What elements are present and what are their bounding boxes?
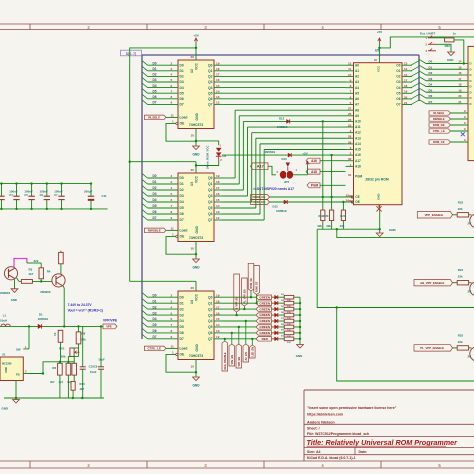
- svg-text:7: 7: [171, 89, 173, 93]
- svg-text:D7: D7: [153, 335, 157, 339]
- svg-text:OE: OE: [180, 235, 186, 239]
- svg-text:D13: D13: [279, 116, 285, 120]
- svg-text:22k: 22k: [34, 259, 39, 263]
- svg-text:O7: O7: [396, 103, 400, 107]
- svg-text:Q0: Q0: [208, 176, 213, 180]
- svg-text:CTRL_LE: CTRL_LE: [433, 129, 445, 133]
- svg-text:VCC: VCC: [195, 62, 199, 70]
- svg-text:D7: D7: [153, 216, 157, 220]
- svg-text:A9: A9: [355, 114, 359, 118]
- svg-text:Q2: Q2: [208, 75, 213, 79]
- svg-text:GND: GND: [195, 344, 199, 352]
- svg-text:9: 9: [171, 335, 173, 339]
- svg-text:Q1: Q1: [208, 182, 213, 186]
- svg-text:GND: GND: [11, 298, 17, 302]
- svg-text:18: 18: [216, 67, 220, 71]
- svg-text:17: 17: [458, 77, 462, 81]
- svg-text:13: 13: [216, 210, 220, 214]
- svg-text:A15: A15: [355, 148, 361, 152]
- svg-text:D7: D7: [180, 337, 184, 341]
- svg-text:VCC: VCC: [195, 293, 199, 301]
- svg-text:D6: D6: [153, 95, 157, 99]
- svg-text:VPE_EN: VPE_EN: [231, 355, 234, 365]
- svg-text:1N5819: 1N5819: [277, 125, 288, 129]
- svg-text:VPP/VPE: VPP/VPE: [103, 319, 118, 323]
- svg-text:A3: A3: [355, 80, 359, 84]
- svg-text:RLSBLE: RLSBLE: [433, 111, 444, 115]
- svg-text:A4: A4: [355, 86, 359, 90]
- svg-text:Q0: Q0: [208, 63, 213, 67]
- svg-text:RV1: RV1: [59, 347, 65, 351]
- svg-text:PGM: PGM: [355, 175, 363, 179]
- svg-text:A6: A6: [355, 97, 359, 101]
- svg-text:Vout = vref * (R1/R2+1): Vout = vref * (R1/R2+1): [68, 308, 103, 312]
- svg-text:26: 26: [348, 112, 352, 116]
- svg-text:22k: 22k: [81, 337, 86, 341]
- svg-text:6: 6: [171, 317, 173, 321]
- svg-text:GREEN: GREEN: [259, 301, 270, 305]
- svg-text:Q1: Q1: [208, 69, 213, 73]
- svg-text:D3: D3: [153, 78, 157, 82]
- svg-text:ROM_OE: ROM_OE: [252, 200, 265, 204]
- svg-text:12: 12: [216, 216, 220, 220]
- svg-text:D4: D4: [153, 84, 157, 88]
- svg-text:GREEN: GREEN: [259, 331, 270, 335]
- svg-text:ROM_CE: ROM_CE: [256, 281, 259, 292]
- svg-text:16: 16: [216, 311, 220, 315]
- svg-text:D7: D7: [180, 218, 184, 222]
- svg-text:GND: GND: [192, 153, 200, 157]
- svg-text:Q4: Q4: [208, 86, 213, 90]
- svg-text:10uF: 10uF: [98, 358, 105, 362]
- svg-text:D2: D2: [429, 71, 433, 75]
- svg-text:15: 15: [216, 198, 220, 202]
- svg-text:4k7: 4k7: [50, 380, 55, 384]
- svg-text:KiCad E.D.A. kicad (6.0.7-1)-: KiCad E.D.A. kicad (6.0.7-1)-1: [307, 456, 356, 460]
- svg-text:14: 14: [216, 89, 220, 93]
- svg-text:D1: D1: [153, 67, 157, 71]
- svg-text:16: 16: [216, 78, 220, 82]
- svg-text:4: 4: [171, 73, 173, 77]
- svg-text:10: 10: [348, 73, 352, 77]
- svg-text:10uF: 10uF: [90, 370, 97, 374]
- svg-text:D7: D7: [153, 101, 157, 105]
- svg-text:D3: D3: [180, 313, 184, 317]
- svg-text:Q6: Q6: [208, 331, 213, 335]
- svg-text:14: 14: [404, 67, 408, 71]
- svg-text:D: D: [470, 62, 472, 66]
- svg-text:22k: 22k: [458, 207, 463, 211]
- svg-text:D7: D7: [429, 100, 433, 104]
- svg-text:CE: CE: [355, 195, 359, 199]
- svg-text:2N3904: 2N3904: [0, 291, 11, 295]
- svg-text:14: 14: [216, 204, 220, 208]
- svg-text:8: 8: [171, 95, 173, 99]
- svg-text:D6: D6: [180, 212, 184, 216]
- svg-text:D2: D2: [223, 154, 227, 158]
- svg-text:C6: C6: [40, 193, 44, 197]
- svg-text:74HC573: 74HC573: [189, 354, 203, 358]
- svg-text:19: 19: [216, 174, 220, 178]
- svg-text:O0: O0: [396, 63, 400, 67]
- svg-text:2: 2: [171, 293, 173, 297]
- svg-text:20: 20: [191, 168, 195, 172]
- svg-text:O6: O6: [396, 97, 400, 101]
- svg-text:13: 13: [404, 62, 408, 66]
- svg-text:C5: C5: [24, 193, 28, 197]
- svg-text:5: 5: [171, 311, 173, 315]
- svg-text:Q4: Q4: [208, 200, 213, 204]
- svg-text:15: 15: [404, 73, 408, 77]
- svg-text:17: 17: [216, 305, 220, 309]
- svg-text:4k7: 4k7: [59, 380, 64, 384]
- svg-text:9: 9: [171, 216, 173, 220]
- svg-text:10: 10: [191, 247, 195, 251]
- svg-text:R6: R6: [52, 366, 56, 370]
- svg-text:14: 14: [216, 323, 220, 327]
- svg-text:RWSBLE: RWSBLE: [148, 229, 161, 233]
- svg-text:D5: D5: [153, 204, 157, 208]
- svg-text:D: D: [470, 90, 472, 94]
- svg-text:100nF: 100nF: [9, 190, 18, 194]
- svg-text:Q7: Q7: [208, 103, 213, 107]
- svg-text:D2: D2: [180, 307, 184, 311]
- svg-text:D: D: [470, 79, 472, 83]
- svg-text:10uH: 10uH: [0, 318, 7, 322]
- svg-text:15: 15: [216, 84, 220, 88]
- svg-text:10: 10: [191, 134, 195, 138]
- svg-text:Q0: Q0: [208, 295, 213, 299]
- svg-text:R19R20: R19R20: [319, 214, 329, 218]
- svg-text:9: 9: [171, 101, 173, 105]
- svg-text:GND: GND: [4, 367, 8, 373]
- svg-text:2: 2: [171, 174, 173, 178]
- svg-text:D2: D2: [153, 305, 157, 309]
- svg-text:20: 20: [458, 94, 462, 98]
- svg-text:A0: A0: [355, 63, 359, 67]
- svg-text:D1: D1: [39, 312, 43, 316]
- svg-text:C11: C11: [102, 194, 108, 198]
- svg-text:3: 3: [171, 67, 173, 71]
- svg-text:D4: D4: [180, 200, 184, 204]
- svg-text:24pin_ROM_VCC: 24pin_ROM_VCC: [206, 144, 210, 169]
- svg-text:VCC: VCC: [195, 175, 199, 183]
- svg-text:A16: A16: [355, 153, 361, 157]
- svg-text:D1: D1: [180, 69, 184, 73]
- svg-text:RED: RED: [262, 337, 269, 341]
- svg-text:GND: GND: [192, 266, 200, 270]
- svg-text:>=SST39SF020 needs A17: >=SST39SF020 needs A17: [253, 187, 294, 191]
- svg-text:GREEN: GREEN: [259, 295, 270, 299]
- svg-text:100nF: 100nF: [40, 190, 49, 194]
- svg-text:Anders Nielsen: Anders Nielsen: [307, 420, 335, 424]
- svg-text:32k: 32k: [340, 224, 345, 228]
- svg-text:18: 18: [404, 84, 408, 88]
- svg-text:Load: Load: [180, 347, 188, 351]
- svg-text:4k7: 4k7: [29, 272, 34, 276]
- svg-text:O4: O4: [396, 86, 400, 90]
- svg-text:O2: O2: [396, 75, 400, 79]
- svg-text:29: 29: [348, 140, 352, 144]
- svg-text:1N5819: 1N5819: [276, 209, 287, 213]
- svg-text:U2: U2: [190, 69, 194, 73]
- svg-text:+5V: +5V: [377, 30, 382, 34]
- svg-text:Size: A4: Size: A4: [307, 450, 321, 454]
- svg-text:14: 14: [458, 60, 462, 64]
- svg-text:7.44V to 24.37V: 7.44V to 24.37V: [68, 303, 93, 307]
- svg-text:Q5: Q5: [208, 91, 213, 95]
- svg-text:3: 3: [171, 180, 173, 184]
- svg-text:A8: A8: [355, 108, 359, 112]
- svg-text:D3: D3: [153, 192, 157, 196]
- svg-text:GND: GND: [2, 407, 8, 411]
- svg-text:22k: 22k: [458, 275, 463, 279]
- svg-text:C10C9: C10C9: [89, 364, 98, 368]
- svg-text:+5V: +5V: [193, 34, 198, 38]
- svg-text:D2: D2: [153, 186, 157, 190]
- svg-text:GND: GND: [377, 194, 381, 200]
- svg-text:ROM_OE: ROM_OE: [433, 123, 445, 127]
- svg-text:1N5819: 1N5819: [265, 150, 276, 154]
- svg-text:ROM_CE: ROM_CE: [253, 195, 266, 199]
- svg-text:D6: D6: [429, 94, 433, 98]
- svg-text:12: 12: [216, 335, 220, 339]
- svg-text:Q4: Q4: [208, 319, 213, 323]
- svg-text:D5: D5: [180, 91, 184, 95]
- svg-text:Q3: Q3: [208, 80, 213, 84]
- svg-text:Q2: Q2: [208, 307, 213, 311]
- svg-text:19: 19: [216, 293, 220, 297]
- svg-text:D7: D7: [180, 103, 184, 107]
- svg-text:7: 7: [171, 204, 173, 208]
- svg-text:6: 6: [171, 198, 173, 202]
- svg-text:VCC: VCC: [377, 65, 381, 72]
- svg-text:VPE: VPE: [106, 325, 112, 329]
- svg-text:MC2288: MC2288: [2, 363, 12, 366]
- svg-text:Load: Load: [180, 116, 188, 120]
- svg-text:5: 5: [171, 78, 173, 82]
- svg-text:A16: A16: [311, 159, 317, 163]
- svg-text:Q6: Q6: [208, 97, 213, 101]
- svg-text:A7: A7: [355, 103, 359, 107]
- svg-text:18: 18: [216, 299, 220, 303]
- svg-text:2N3906: 2N3906: [40, 290, 51, 294]
- svg-text:D1: D1: [180, 301, 184, 305]
- svg-text:A14: A14: [355, 142, 361, 146]
- svg-text:U5: U5: [375, 49, 379, 53]
- svg-text:4: 4: [171, 186, 173, 190]
- svg-text:D5: D5: [153, 323, 157, 327]
- svg-text:28: 28: [348, 135, 352, 139]
- svg-text:200uF: 200uF: [84, 190, 93, 194]
- svg-text:D: D: [470, 67, 472, 71]
- svg-text:R4: R4: [47, 269, 51, 273]
- svg-text:100nF: 100nF: [54, 190, 63, 194]
- svg-text:CTRL_LE: CTRL_LE: [148, 347, 162, 351]
- svg-text:16: 16: [216, 192, 220, 196]
- svg-text:GREEN: GREEN: [259, 313, 270, 317]
- svg-text:D12: D12: [273, 205, 279, 209]
- svg-text:Q7: Q7: [208, 218, 213, 222]
- svg-text:13: 13: [216, 95, 220, 99]
- svg-text:D3: D3: [180, 80, 184, 84]
- svg-text:D2: D2: [180, 188, 184, 192]
- svg-text:27: 27: [348, 107, 352, 111]
- svg-text:OE: OE: [355, 200, 360, 204]
- svg-text:D5: D5: [429, 88, 433, 92]
- svg-text:GND: GND: [389, 228, 397, 232]
- svg-text:D2: D2: [153, 73, 157, 77]
- svg-text:Q2: Q2: [208, 188, 213, 192]
- svg-text:U4: U4: [190, 300, 194, 304]
- svg-text:D4: D4: [429, 83, 433, 87]
- svg-text:+5V: +5V: [302, 152, 307, 156]
- svg-text:17: 17: [404, 78, 408, 82]
- svg-text:18: 18: [458, 83, 462, 87]
- svg-text:22k: 22k: [458, 340, 463, 344]
- svg-text:D0: D0: [180, 295, 184, 299]
- svg-text:19: 19: [458, 88, 462, 92]
- svg-text:6: 6: [171, 84, 173, 88]
- svg-text:O5: O5: [396, 91, 400, 95]
- svg-text:D5: D5: [180, 325, 184, 329]
- svg-text:D: D: [470, 96, 472, 100]
- svg-text:100nF: 100nF: [24, 190, 33, 194]
- svg-text:D[0..7]: D[0..7]: [126, 52, 136, 56]
- svg-text:28/32 pin ROM: 28/32 pin ROM: [365, 178, 389, 182]
- svg-text:Q3: Q3: [208, 194, 213, 198]
- svg-text:A13: A13: [355, 136, 361, 140]
- svg-text:5: 5: [171, 192, 173, 196]
- svg-text:GREEN: GREEN: [259, 319, 270, 323]
- svg-text:D1: D1: [180, 182, 184, 186]
- svg-text:D0: D0: [153, 293, 157, 297]
- svg-text:D1: D1: [153, 180, 157, 184]
- svg-text:D0: D0: [429, 60, 433, 64]
- svg-text:A18: A18: [311, 170, 317, 174]
- svg-text:D4: D4: [180, 319, 184, 323]
- svg-text:21: 21: [404, 101, 408, 105]
- svg-text:D0: D0: [153, 174, 157, 178]
- svg-text:7: 7: [171, 323, 173, 327]
- svg-text:11: 11: [348, 67, 352, 71]
- svg-text:2N: 2N: [468, 221, 472, 225]
- svg-text:Ext_UART: Ext_UART: [420, 32, 435, 36]
- svg-text:A12: A12: [355, 131, 361, 135]
- svg-text:10: 10: [191, 365, 195, 369]
- svg-text:R3: R3: [29, 267, 33, 271]
- svg-text:D5: D5: [153, 89, 157, 93]
- svg-text:17: 17: [216, 73, 220, 77]
- svg-text:D6: D6: [153, 329, 157, 333]
- svg-text:R25: R25: [458, 333, 464, 337]
- svg-text:GND: GND: [195, 113, 199, 121]
- svg-text:31: 31: [348, 173, 352, 177]
- svg-text:D: D: [470, 85, 472, 89]
- svg-text:A1: A1: [355, 69, 359, 73]
- svg-text:GND: GND: [296, 354, 302, 358]
- svg-text:C4: C4: [9, 193, 13, 197]
- svg-text:25: 25: [348, 123, 352, 127]
- svg-text:C7: C7: [54, 193, 58, 197]
- svg-text:D6: D6: [153, 210, 157, 214]
- svg-text:VPP_ENABLE: VPP_ENABLE: [425, 213, 444, 217]
- svg-text:ROM_CE: ROM_CE: [433, 140, 445, 144]
- svg-text:Sheet: /: Sheet: /: [307, 427, 320, 431]
- svg-text:D3: D3: [153, 311, 157, 315]
- svg-text:U1: U1: [2, 353, 6, 357]
- svg-text:18: 18: [216, 180, 220, 184]
- svg-text:File: W27C512Programmer.kicad_: File: W27C512Programmer.kicad_sch: [307, 432, 369, 436]
- svg-text:A17: A17: [355, 159, 361, 163]
- svg-text:D1: D1: [153, 299, 157, 303]
- svg-text:20: 20: [191, 286, 195, 290]
- svg-text:FB: FB: [16, 372, 20, 376]
- svg-text:1N5819: 1N5819: [38, 317, 49, 321]
- svg-text:LED_EN: LED_EN: [251, 347, 254, 357]
- svg-text:74HC573: 74HC573: [189, 123, 203, 127]
- svg-text:D5: D5: [180, 206, 184, 210]
- svg-text:19: 19: [216, 61, 220, 65]
- svg-text:3: 3: [171, 299, 173, 303]
- svg-text:PL_VPP_ENABLE: PL_VPP_ENABLE: [420, 346, 444, 350]
- svg-text:D4: D4: [153, 198, 157, 202]
- svg-text:https://abnielsen.com: https://abnielsen.com: [307, 413, 343, 417]
- svg-text:D6: D6: [180, 331, 184, 335]
- svg-text:D0: D0: [180, 176, 184, 180]
- svg-text:D0: D0: [180, 63, 184, 67]
- svg-text:D4: D4: [180, 86, 184, 90]
- svg-text:12: 12: [348, 62, 352, 66]
- svg-text:32k: 32k: [317, 224, 322, 228]
- svg-text:R21: R21: [340, 214, 345, 218]
- svg-text:Q3: Q3: [208, 313, 213, 317]
- svg-text:REG_DISABLE: REG_DISABLE: [224, 352, 227, 369]
- svg-text:Load: Load: [180, 229, 188, 233]
- svg-text:Q5: Q5: [208, 325, 213, 329]
- svg-text:O1: O1: [396, 69, 400, 73]
- svg-text:GREEN: GREEN: [259, 307, 270, 311]
- svg-text:GND: GND: [192, 384, 200, 388]
- svg-text:12: 12: [216, 101, 220, 105]
- svg-text:20: 20: [191, 55, 195, 59]
- svg-text:PL_VPP_EN: PL_VPP_EN: [243, 289, 246, 303]
- svg-text:Title: Relatively Universal RO: Title: Relatively Universal ROM Programm…: [307, 438, 459, 447]
- svg-text:R23: R23: [458, 200, 464, 204]
- svg-text:16: 16: [458, 71, 462, 75]
- svg-text:O3: O3: [396, 80, 400, 84]
- svg-text:19: 19: [404, 90, 408, 94]
- svg-text:A9_12V: A9_12V: [245, 351, 248, 360]
- svg-text:GREEN: GREEN: [259, 325, 270, 329]
- svg-text:Date:: Date:: [359, 450, 368, 454]
- svg-text:50k: 50k: [61, 355, 66, 359]
- svg-text:23: 23: [348, 118, 352, 122]
- svg-text:OE: OE: [180, 353, 186, 357]
- svg-text:32k: 32k: [326, 224, 331, 228]
- svg-text:2: 2: [171, 61, 173, 65]
- svg-text:L1: L1: [3, 313, 7, 317]
- svg-text:D0: D0: [153, 61, 157, 65]
- svg-text:13: 13: [216, 329, 220, 333]
- svg-text:A2: A2: [355, 75, 359, 79]
- svg-text:R8: R8: [82, 331, 86, 335]
- svg-text:VPP_EN: VPP_EN: [238, 357, 241, 367]
- svg-text:A18: A18: [355, 164, 361, 168]
- svg-text:U3: U3: [190, 182, 194, 186]
- svg-text:AB_VPP_ENABLE: AB_VPP_ENABLE: [420, 281, 444, 285]
- svg-text:Q1: Q1: [208, 301, 213, 305]
